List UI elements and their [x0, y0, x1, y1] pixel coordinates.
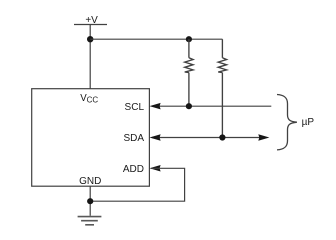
node junction +V rail — [87, 36, 93, 42]
wire ADD strap to ground — [90, 168, 184, 201]
arrowhead SDA toward uP — [258, 134, 269, 141]
node junction R1 top — [186, 36, 192, 42]
IC body U1 — [32, 89, 150, 187]
node junction SDA/R2 — [219, 134, 225, 140]
arrowhead SCL into IC — [150, 103, 161, 110]
svg-text:VCC: VCC — [80, 93, 98, 105]
resistor R2 (pull-up on SDA) — [218, 39, 226, 137]
svg-text:ADD: ADD — [123, 164, 144, 175]
wire +V to VCC pin — [89, 25, 91, 89]
wire top rail — [90, 38, 222, 40]
svg-text:SDA: SDA — [123, 133, 144, 144]
wire SDA bus — [152, 137, 262, 139]
node junction SCL/R1 — [186, 103, 192, 109]
resistor R1 (pull-up on SCL) — [185, 39, 193, 106]
ground symbol — [78, 217, 102, 225]
node junction GND/ADD — [87, 198, 93, 204]
arrowhead ADD into IC — [150, 165, 161, 172]
arrowhead SDA into IC — [150, 134, 161, 141]
brace to microprocessor — [277, 95, 297, 150]
svg-text:µP: µP — [302, 117, 315, 128]
svg-text:SCL: SCL — [125, 102, 145, 113]
wire GND pin down — [89, 186, 91, 216]
svg-text:GND: GND — [79, 176, 101, 187]
wire SCL bus — [152, 105, 271, 107]
supply +V terminal bar — [74, 24, 107, 26]
